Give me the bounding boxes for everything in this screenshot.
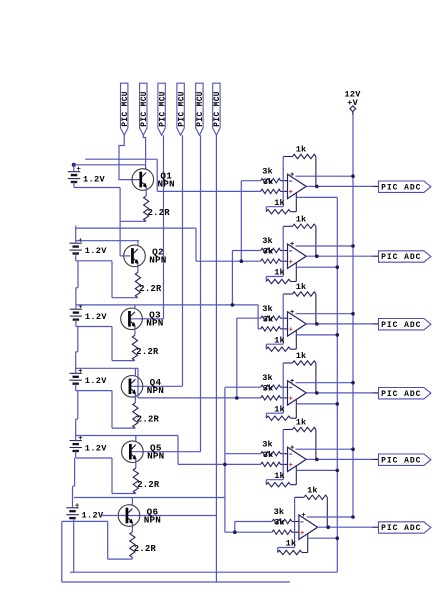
- svg-text:1.2V: 1.2V: [85, 312, 108, 322]
- svg-text:1k: 1k: [307, 485, 318, 495]
- svg-text:1k: 1k: [274, 471, 285, 481]
- svg-text:PIC MCU: PIC MCU: [178, 91, 186, 127]
- svg-text:1.2V: 1.2V: [85, 443, 108, 453]
- svg-text:+: +: [288, 396, 293, 404]
- svg-text:+: +: [290, 309, 295, 317]
- svg-text:1k: 1k: [274, 335, 285, 345]
- svg-text:+: +: [78, 368, 83, 376]
- svg-text:PIC MCU: PIC MCU: [141, 91, 149, 127]
- svg-text:PIC MCU: PIC MCU: [159, 91, 167, 127]
- svg-text:1k: 1k: [296, 418, 307, 428]
- svg-text:1k: 1k: [274, 198, 285, 208]
- svg-text:PIC ADC: PIC ADC: [381, 524, 421, 533]
- svg-text:+: +: [290, 171, 295, 179]
- svg-text:+: +: [78, 238, 83, 246]
- svg-text:2.2R: 2.2R: [134, 544, 157, 554]
- svg-text:3k: 3k: [262, 166, 273, 176]
- svg-text:+: +: [288, 189, 293, 197]
- svg-text:NPN: NPN: [158, 178, 175, 189]
- svg-text:1.2V: 1.2V: [85, 376, 108, 386]
- svg-text:+: +: [300, 530, 305, 538]
- svg-text:PIC MCU: PIC MCU: [197, 91, 205, 127]
- svg-text:3k: 3k: [274, 507, 285, 517]
- svg-text:NPN: NPN: [149, 255, 166, 266]
- svg-text:1k: 1k: [296, 145, 307, 155]
- svg-text:3k: 3k: [274, 518, 285, 528]
- svg-text:3k: 3k: [263, 177, 274, 187]
- svg-text:+: +: [76, 166, 81, 174]
- svg-text:+: +: [78, 435, 83, 443]
- svg-text:1k: 1k: [296, 282, 307, 292]
- svg-text:+: +: [301, 512, 306, 520]
- svg-text:NPN: NPN: [144, 514, 161, 525]
- svg-text:+: +: [288, 327, 293, 335]
- svg-text:NPN: NPN: [147, 385, 164, 396]
- svg-text:PIC ADC: PIC ADC: [381, 183, 421, 192]
- svg-text:3k: 3k: [262, 304, 273, 314]
- svg-text:3k: 3k: [262, 236, 273, 246]
- svg-text:3k: 3k: [263, 314, 274, 324]
- svg-text:PIC ADC: PIC ADC: [381, 390, 421, 399]
- svg-text:+: +: [290, 444, 295, 452]
- svg-text:+: +: [288, 462, 293, 470]
- svg-text:PIC ADC: PIC ADC: [381, 456, 421, 465]
- svg-text:1k: 1k: [274, 404, 285, 414]
- svg-text:PIC ADC: PIC ADC: [381, 321, 421, 330]
- svg-text:PIC MCU: PIC MCU: [122, 91, 130, 127]
- svg-text:2.2R: 2.2R: [137, 480, 160, 490]
- svg-text:1k: 1k: [296, 351, 307, 361]
- svg-text:1.2V: 1.2V: [83, 175, 106, 185]
- svg-text:3k: 3k: [263, 247, 274, 257]
- svg-text:1k: 1k: [296, 214, 307, 224]
- svg-text:1k: 1k: [286, 539, 297, 549]
- svg-text:PIC MCU: PIC MCU: [214, 91, 222, 127]
- svg-text:3k: 3k: [262, 439, 273, 449]
- svg-text:2.2R: 2.2R: [136, 347, 159, 357]
- svg-text:+: +: [75, 502, 80, 510]
- svg-text:+: +: [290, 241, 295, 249]
- svg-text:2.2R: 2.2R: [137, 415, 160, 425]
- svg-text:1k: 1k: [274, 268, 285, 278]
- svg-text:3k: 3k: [262, 373, 273, 383]
- svg-text:NPN: NPN: [147, 451, 164, 462]
- svg-text:3k: 3k: [263, 383, 274, 393]
- svg-text:1.2V: 1.2V: [85, 246, 108, 256]
- svg-text:3k: 3k: [263, 450, 274, 460]
- svg-text:+: +: [290, 378, 295, 386]
- svg-text:+: +: [288, 259, 293, 267]
- svg-text:2.2R: 2.2R: [148, 208, 171, 218]
- svg-text:PIC ADC: PIC ADC: [381, 253, 421, 262]
- svg-text:NPN: NPN: [146, 318, 163, 329]
- svg-text:2.2R: 2.2R: [139, 284, 162, 294]
